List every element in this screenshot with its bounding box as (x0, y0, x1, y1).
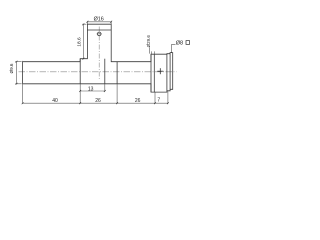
extension line top for 18.6 dim (82, 23, 86, 25)
extension line at x=80.2 (step edge) (79, 84, 81, 104)
extension line at x=167.9 (flange right face) (167, 91, 169, 104)
dimension leader stub for diameter 29.6 (148, 47, 150, 53)
shaft internal edge mid (104, 59, 106, 84)
svg-text:Ø16: Ø16 (94, 16, 104, 22)
small hole circle on boss (97, 32, 101, 36)
tick marks of 18.6 dim (83, 23, 85, 59)
svg-text:26: 26 (135, 98, 141, 104)
dimension line 13 (80, 90, 105, 92)
shaft internal edge right (116, 62, 118, 84)
step B right face (169, 53, 171, 90)
part outline: stepped shaft body (23, 24, 173, 92)
dimension line diameter 9.6 (vertical) (16, 62, 18, 84)
svg-text:Ø29.6: Ø29.6 (146, 35, 151, 48)
svg-text:40: 40 (52, 98, 58, 104)
extension line at x=104.8 (step edge, for dim 13) (104, 84, 106, 92)
extension line at x=22.6 (left face) (22, 84, 24, 104)
leader arrowhead (171, 52, 172, 53)
svg-text:13: 13 (88, 86, 94, 92)
extension line top for diameter 9.6 dim (15, 61, 21, 63)
hole center crosshair (97, 33, 102, 35)
dimension line 18.6 (vertical) (82, 24, 84, 59)
tick marks of bottom dimension chain (22, 102, 169, 104)
extension stub above flange inner edge (153, 51, 155, 54)
leader line for diameter 8 label (172, 44, 176, 52)
flange left face full height (150, 54, 152, 92)
boss inner horizontal line (87, 29, 111, 31)
tick marks of dimension 13 (79, 90, 105, 92)
svg-text:Ø9.6: Ø9.6 (9, 63, 14, 73)
missing-glyph box after diameter 8 label (186, 41, 190, 45)
svg-text:26: 26 (95, 98, 101, 104)
tick marks of diameter 9.6 dim (16, 61, 18, 85)
dimension line diameter 16 (87, 21, 112, 23)
horizontal axis centerline (19, 71, 177, 73)
extension stub left for diameter 16 dim (86, 22, 88, 24)
extension stub above flange left corner (150, 51, 152, 54)
extension line stub above left face (22, 60, 24, 63)
flange center mark (159, 68, 161, 74)
tick marks of diameter 16 dim (87, 21, 113, 23)
extension line at x=117.1 (step edge) (116, 84, 118, 104)
flange right face (166, 54, 168, 91)
extension line bottom for diameter 9.6 dim (15, 83, 21, 85)
boss vertical centerline (98, 27, 100, 81)
flange inner edge (153, 54, 155, 92)
svg-text:7: 7 (157, 98, 160, 104)
shaft internal edge left (79, 59, 81, 84)
bottom dimension line (23, 102, 168, 104)
extension line at x=155 (flange inner edge) (154, 93, 156, 104)
extension stub right for diameter 16 dim (110, 22, 112, 24)
svg-text:Ø8: Ø8 (176, 41, 183, 47)
svg-text:18.6: 18.6 (77, 37, 83, 47)
